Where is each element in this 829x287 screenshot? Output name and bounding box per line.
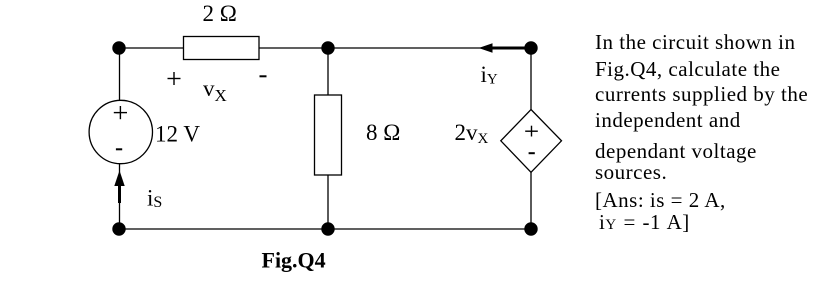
current arrow iY on top wire	[491, 47, 530, 50]
problem statement text block	[595, 32, 795, 53]
svg-text:iY: iY	[481, 62, 498, 88]
svg-text:2 Ω: 2 Ω	[203, 1, 237, 26]
svg-text:vX: vX	[203, 76, 227, 105]
node top-right	[524, 41, 537, 54]
polarity plus for vx	[168, 72, 181, 85]
wire middle rail upper	[327, 48, 329, 95]
wire left rail upper	[119, 48, 121, 101]
wire left rail lower	[119, 164, 121, 230]
svg-text:iS: iS	[147, 186, 162, 212]
current arrow is on left rail	[118, 185, 121, 203]
node top-left	[112, 41, 125, 54]
plus sign inside diamond	[525, 126, 538, 137]
resistor R 8 ohm	[315, 95, 342, 175]
minus sign inside diamond	[529, 152, 535, 154]
node bottom-middle	[321, 222, 334, 235]
node bottom-left	[112, 222, 125, 235]
wire top-right segment	[258, 47, 531, 49]
voltage source V1 12V circle	[89, 100, 152, 163]
plus sign inside source	[114, 106, 127, 119]
minus sign inside source	[116, 148, 122, 150]
svg-text:8 Ω: 8 Ω	[366, 120, 400, 145]
wire middle rail lower	[327, 175, 329, 229]
dependent source 2vx diamond	[501, 110, 562, 173]
svg-text:12 V: 12 V	[155, 122, 200, 147]
wire top-left segment	[119, 47, 184, 49]
wire bottom	[119, 228, 531, 230]
polarity minus for vx	[260, 75, 267, 77]
wire right rail upper	[530, 48, 532, 110]
svg-text:Fig.Q4: Fig.Q4	[262, 248, 326, 273]
resistor R 2 ohm	[184, 37, 260, 60]
node top-middle	[321, 41, 334, 54]
wire right rail lower	[530, 172, 532, 229]
svg-text:2vX: 2vX	[455, 120, 489, 147]
node bottom-right	[524, 222, 537, 235]
